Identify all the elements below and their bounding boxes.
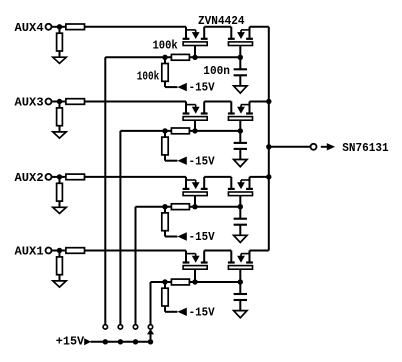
wire shunt resistor to ground bbox=[59, 126, 61, 133]
svg-text:AUX1: AUX1 bbox=[15, 245, 44, 259]
transistor M4a (ZVN4424) bbox=[183, 27, 208, 58]
wire output bus vertical bbox=[268, 27, 270, 251]
input terminal AUX2 bbox=[15, 171, 52, 185]
wire node A4 down bbox=[164, 57, 166, 63]
wire select bus 4 vertical bbox=[104, 57, 106, 325]
supply -15V stage 3 bbox=[177, 154, 215, 168]
wire gate row stage 1 bbox=[151, 281, 241, 283]
plug arrow into socket 4 bbox=[147, 329, 154, 342]
node +15V rail tap 4 bbox=[103, 339, 108, 344]
resistor 100k series stage 2 bbox=[171, 204, 189, 210]
node gate M2a bbox=[192, 204, 197, 209]
transistor M1b (ZVN4424) bbox=[228, 251, 253, 283]
node gate M1a bbox=[192, 279, 197, 284]
wire AUX3 input row to transistor bbox=[85, 101, 187, 103]
node A1 divider junction bbox=[162, 279, 167, 284]
node gate M2b bbox=[238, 204, 243, 209]
wire gate node to capacitor C3 bbox=[239, 131, 241, 143]
transistor M3b (ZVN4424) bbox=[228, 102, 253, 131]
label ZVN4424 bbox=[198, 14, 245, 28]
svg-text:+15V: +15V bbox=[56, 334, 85, 348]
resistor input series R3a bbox=[66, 99, 85, 105]
node gate M1b bbox=[238, 279, 243, 284]
label SN76131 bbox=[342, 141, 388, 155]
ground below capacitor C3 bbox=[234, 160, 247, 167]
node +15V rail tap 1 bbox=[148, 339, 153, 344]
node gate M3b bbox=[238, 128, 243, 133]
wire select bus 2 vertical bbox=[135, 207, 137, 325]
svg-text:-15V: -15V bbox=[189, 230, 216, 244]
wire select bus 3 vertical bbox=[119, 131, 121, 325]
wire AUX2 input row to transistor bbox=[85, 176, 187, 178]
supply -15V stage 4 bbox=[177, 81, 215, 95]
input terminal AUX4 bbox=[15, 21, 52, 35]
node gate M3a bbox=[192, 128, 197, 133]
ground below capacitor C1 bbox=[234, 311, 247, 318]
wire bridge between transistor pair bbox=[204, 176, 231, 178]
wire output tap to terminal bbox=[269, 146, 311, 148]
capacitor C2 100n bbox=[234, 219, 247, 236]
wire gate node to capacitor C4 bbox=[239, 57, 241, 69]
svg-text:ZVN4424: ZVN4424 bbox=[198, 14, 245, 28]
wire node A3 down bbox=[164, 131, 166, 137]
resistor 100k series stage 3 bbox=[171, 128, 189, 134]
resistor 100k shunt stage 1 bbox=[162, 288, 168, 306]
supply +15V bbox=[56, 334, 91, 348]
select link socket 2 bbox=[133, 325, 137, 329]
ground below AUX1 shunt resistor bbox=[53, 281, 66, 287]
node bus output tap bbox=[266, 144, 271, 149]
wire junction down to shunt resistor bbox=[59, 27, 61, 33]
node A4 divider junction bbox=[162, 55, 167, 60]
transistor M2a (ZVN4424) bbox=[183, 177, 208, 207]
resistor 100k series stage 4 bbox=[171, 54, 189, 60]
node A2 divider junction bbox=[162, 204, 167, 209]
label 100k series bbox=[153, 38, 178, 52]
wire bridge between transistor pair bbox=[204, 101, 231, 103]
wire AUX4 input row to transistor bbox=[85, 26, 187, 28]
node gate M4a bbox=[192, 55, 197, 60]
resistor input shunt R1b bbox=[57, 257, 63, 275]
ground below AUX2 shunt resistor bbox=[53, 207, 66, 213]
svg-text:100k: 100k bbox=[153, 38, 178, 52]
resistor 100k shunt stage 4 bbox=[162, 64, 168, 82]
wire gate row stage 2 bbox=[136, 206, 241, 208]
node +15V rail tap 2 bbox=[133, 339, 138, 344]
resistor input shunt R2b bbox=[57, 183, 63, 201]
wire gate node to capacitor C1 bbox=[239, 282, 241, 294]
node AUX1 input junction bbox=[57, 248, 62, 253]
wire bridge between transistor pair bbox=[204, 26, 231, 28]
wire transistor pair output to bus bbox=[250, 26, 269, 28]
wire shunt 100k to -15V bbox=[165, 81, 177, 87]
node A3 divider junction bbox=[162, 128, 167, 133]
transistor M3a (ZVN4424) bbox=[183, 102, 208, 131]
wire shunt resistor to ground bbox=[59, 201, 61, 208]
wire AUX2 terminal to junction bbox=[52, 176, 66, 178]
ground below AUX4 shunt resistor bbox=[53, 57, 66, 63]
capacitor C4 100n bbox=[234, 69, 247, 86]
supply -15V stage 1 bbox=[177, 305, 215, 319]
transistor M4b (ZVN4424) bbox=[228, 27, 253, 58]
transistor M2b (ZVN4424) bbox=[228, 177, 253, 207]
resistor input series R4a bbox=[66, 24, 85, 30]
node +15V rail tap 3 bbox=[118, 339, 123, 344]
label 100k shunt bbox=[137, 70, 160, 84]
wire junction down to shunt resistor bbox=[59, 251, 61, 257]
transistor M1a (ZVN4424) bbox=[183, 251, 208, 283]
wire shunt resistor to ground bbox=[59, 275, 61, 282]
wire transistor pair output to bus bbox=[250, 176, 269, 178]
select link socket 1 bbox=[148, 325, 152, 329]
wire bridge between transistor pair bbox=[204, 250, 231, 252]
wire junction down to shunt resistor bbox=[59, 102, 61, 108]
resistor 100k series stage 1 bbox=[171, 279, 189, 285]
output terminal bbox=[311, 144, 317, 150]
wire AUX4 terminal to junction bbox=[52, 26, 66, 28]
wire gate node to capacitor C2 bbox=[239, 207, 241, 219]
resistor input shunt R3b bbox=[57, 108, 63, 126]
wire gate row stage 4 bbox=[105, 56, 240, 58]
wire node A2 down bbox=[164, 207, 166, 213]
ground below capacitor C2 bbox=[234, 235, 247, 242]
resistor input series R1a bbox=[66, 248, 85, 254]
svg-text:-15V: -15V bbox=[189, 305, 216, 319]
wire shunt 100k to -15V bbox=[165, 231, 177, 237]
wire select bus 1 vertical bbox=[150, 282, 152, 325]
input terminal AUX3 bbox=[15, 96, 52, 110]
wire shunt 100k to -15V bbox=[165, 155, 177, 161]
label 100n bbox=[203, 64, 230, 78]
svg-text:100k: 100k bbox=[137, 70, 160, 84]
node bus join stage 3 bbox=[266, 99, 271, 104]
wire AUX1 input row to transistor bbox=[85, 250, 187, 252]
ground below AUX3 shunt resistor bbox=[53, 132, 66, 138]
node AUX3 input junction bbox=[57, 99, 62, 104]
wire AUX1 terminal to junction bbox=[52, 250, 66, 252]
svg-text:AUX4: AUX4 bbox=[15, 21, 44, 35]
node bus join stage 2 bbox=[266, 174, 271, 179]
select link socket 4 bbox=[103, 325, 107, 329]
resistor input series R2a bbox=[66, 174, 85, 180]
resistor input shunt R4b bbox=[57, 33, 63, 51]
svg-text:AUX2: AUX2 bbox=[15, 171, 44, 185]
svg-text:SN76131: SN76131 bbox=[342, 141, 388, 155]
supply -15V stage 2 bbox=[177, 230, 215, 244]
wire gate row stage 3 bbox=[120, 130, 240, 132]
wire node A1 down bbox=[164, 282, 166, 288]
wire transistor pair output to bus bbox=[250, 250, 269, 252]
svg-text:-15V: -15V bbox=[189, 81, 216, 95]
capacitor C3 100n bbox=[234, 143, 247, 160]
input terminal AUX1 bbox=[15, 245, 52, 259]
wire +15V rail bbox=[91, 341, 151, 343]
wire junction down to shunt resistor bbox=[59, 177, 61, 183]
node AUX4 input junction bbox=[57, 24, 62, 29]
svg-text:100n: 100n bbox=[203, 64, 230, 78]
node AUX2 input junction bbox=[57, 174, 62, 179]
wire transistor pair output to bus bbox=[250, 101, 269, 103]
svg-text:AUX3: AUX3 bbox=[15, 96, 44, 110]
resistor 100k shunt stage 3 bbox=[162, 137, 168, 155]
select link socket 3 bbox=[118, 325, 122, 329]
wire AUX3 terminal to junction bbox=[52, 101, 66, 103]
resistor 100k shunt stage 2 bbox=[162, 213, 168, 231]
capacitor C1 100n bbox=[234, 294, 247, 311]
svg-text:-15V: -15V bbox=[189, 154, 216, 168]
wire shunt 100k to -15V bbox=[165, 306, 177, 312]
node gate M4b bbox=[238, 55, 243, 60]
arrow to SN76131 bbox=[321, 143, 335, 150]
ground below capacitor C4 bbox=[234, 86, 247, 93]
wire shunt resistor to ground bbox=[59, 51, 61, 58]
